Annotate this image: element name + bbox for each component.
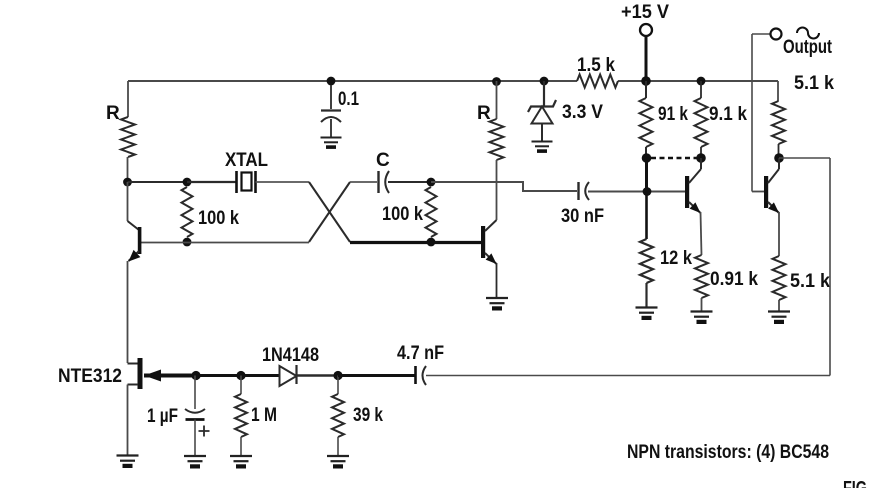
svg-text:1N4148: 1N4148 <box>262 345 319 366</box>
node R right top <box>492 77 501 86</box>
node 9.1k top <box>697 77 706 86</box>
capacitor 0.1 <box>330 85 332 109</box>
wire node B to 30nF <box>431 182 577 191</box>
crystal XTAL <box>235 171 238 193</box>
transistor NTE312 JFET <box>128 363 139 365</box>
node 91k bottom <box>642 153 652 163</box>
wire JFET gate <box>144 374 196 378</box>
svg-text:0.1: 0.1 <box>338 89 359 110</box>
ground below 12k <box>636 306 658 308</box>
svg-text:R: R <box>106 103 120 124</box>
svg-text:Output: Output <box>783 37 833 58</box>
wire supply drop <box>645 36 648 81</box>
resistor 1 M <box>240 376 242 395</box>
node 0.1 cap junction <box>327 77 336 86</box>
resistor 0.91 k <box>701 212 702 255</box>
wire node A to 100k <box>128 181 188 183</box>
ground below 5.1k <box>768 310 790 312</box>
zener diode 3.3 V <box>543 81 545 106</box>
svg-text:5.1 k: 5.1 k <box>794 73 834 94</box>
wire Q2 base row <box>350 241 481 244</box>
node 100k left bottom <box>183 238 192 247</box>
svg-text:30 nF: 30 nF <box>561 206 604 227</box>
svg-text:12 k: 12 k <box>660 248 692 269</box>
svg-text:100 k: 100 k <box>382 204 423 225</box>
svg-text:1 µF: 1 µF <box>147 406 178 427</box>
transistor Q1 <box>127 182 129 221</box>
wire crossover down <box>309 182 350 242</box>
node 39k junction <box>333 371 342 380</box>
ground below 0.1 cap <box>321 137 342 139</box>
ground below 39k <box>327 455 349 457</box>
capacitor 1 uF <box>194 376 196 410</box>
ground Q2 emitter <box>486 297 508 299</box>
wire feedback right <box>779 157 830 159</box>
wire 39k node to 4.7nF <box>338 374 415 377</box>
ground below NTE312 <box>117 454 139 456</box>
resistor 9.1 k <box>700 81 702 98</box>
output terminal circle <box>771 29 782 40</box>
node supply junction <box>641 76 651 86</box>
wire crossover to C <box>350 181 377 183</box>
wire rail corner to 5.1k <box>777 81 779 101</box>
wire output line <box>751 34 753 192</box>
capacitor 4.7 nF <box>414 366 417 384</box>
node Q3 base junction <box>643 187 652 196</box>
wire XTAL to crossover <box>256 181 310 183</box>
resistor 39 k <box>337 376 339 395</box>
wire to XTAL <box>187 181 236 183</box>
node B right xtal node <box>427 178 436 187</box>
ground below 1M <box>230 455 252 457</box>
node 100k left top <box>183 178 192 187</box>
wire gate to 1M node <box>196 374 241 377</box>
wire Q1 base row <box>141 242 309 244</box>
wire Q1 emitter down <box>127 261 129 363</box>
svg-text:1.5 k: 1.5 k <box>577 55 615 76</box>
svg-text:NTE312: NTE312 <box>58 366 122 387</box>
node zener junction <box>540 77 549 86</box>
svg-text:39 k: 39 k <box>353 405 383 426</box>
ground below zener <box>532 141 553 143</box>
transistor Q2 <box>481 226 485 258</box>
resistor 12 k <box>645 192 648 240</box>
wire 30nF to Q3 base <box>588 191 685 193</box>
node Q4 collector junction <box>774 153 784 163</box>
transistor Q4 <box>764 176 768 208</box>
svg-text:XTAL: XTAL <box>225 150 268 171</box>
svg-text:FIG: FIG <box>843 478 867 488</box>
node 100k right bottom <box>427 238 436 247</box>
wire 91k node to base node <box>645 158 648 192</box>
wire diode to 39k node <box>297 374 338 377</box>
svg-text:+15 V: +15 V <box>621 2 669 23</box>
svg-text:9.1 k: 9.1 k <box>709 104 747 125</box>
resistor 100 k left <box>182 187 193 237</box>
wire Q2 emitter <box>496 263 498 297</box>
svg-text:NPN transistors: (4) BC548: NPN transistors: (4) BC548 <box>627 442 829 463</box>
wire Q4 base <box>752 191 764 193</box>
svg-text:4.7 nF: 4.7 nF <box>397 343 444 364</box>
resistor R (left) <box>127 81 129 117</box>
svg-text:0.91 k: 0.91 k <box>710 269 758 290</box>
+15 V supply terminal <box>640 24 652 36</box>
svg-text:5.1 k: 5.1 k <box>790 271 830 292</box>
svg-text:3.3 V: 3.3 V <box>562 102 603 123</box>
diode 1N4148 <box>280 366 297 386</box>
wire top supply rail <box>128 80 577 82</box>
capacitor 30 nF <box>577 182 579 200</box>
resistor 1.5 k <box>577 75 618 88</box>
svg-text:C: C <box>376 150 390 171</box>
wire 91k to 9.1k node dashed <box>651 157 697 159</box>
sine symbol <box>797 28 819 39</box>
svg-text:100 k: 100 k <box>198 208 239 229</box>
node A left xtal node <box>123 178 132 187</box>
wire feedback down <box>829 158 831 376</box>
node gate cap junction <box>191 371 200 380</box>
wire crossover up <box>309 182 350 242</box>
node 1M junction <box>236 371 245 380</box>
resistor 5.1 k bottom <box>778 212 780 256</box>
capacitor C <box>377 171 379 193</box>
wire C to node B <box>388 181 431 183</box>
resistor R right <box>496 81 498 119</box>
resistor 100 k right <box>426 187 437 237</box>
resistor 5.1 k top <box>772 101 785 144</box>
svg-text:R: R <box>477 103 491 124</box>
wire feedback bottom <box>426 375 830 377</box>
ground below 0.91k <box>691 310 713 312</box>
transistor Q3 <box>685 176 689 208</box>
node Q3 collector junction <box>696 153 706 163</box>
wire 1M node to diode <box>241 374 279 377</box>
svg-text:1 M: 1 M <box>251 405 277 426</box>
resistor 91 k <box>645 81 647 98</box>
ground below 1uF <box>184 455 206 457</box>
svg-text:91 k: 91 k <box>658 104 688 125</box>
